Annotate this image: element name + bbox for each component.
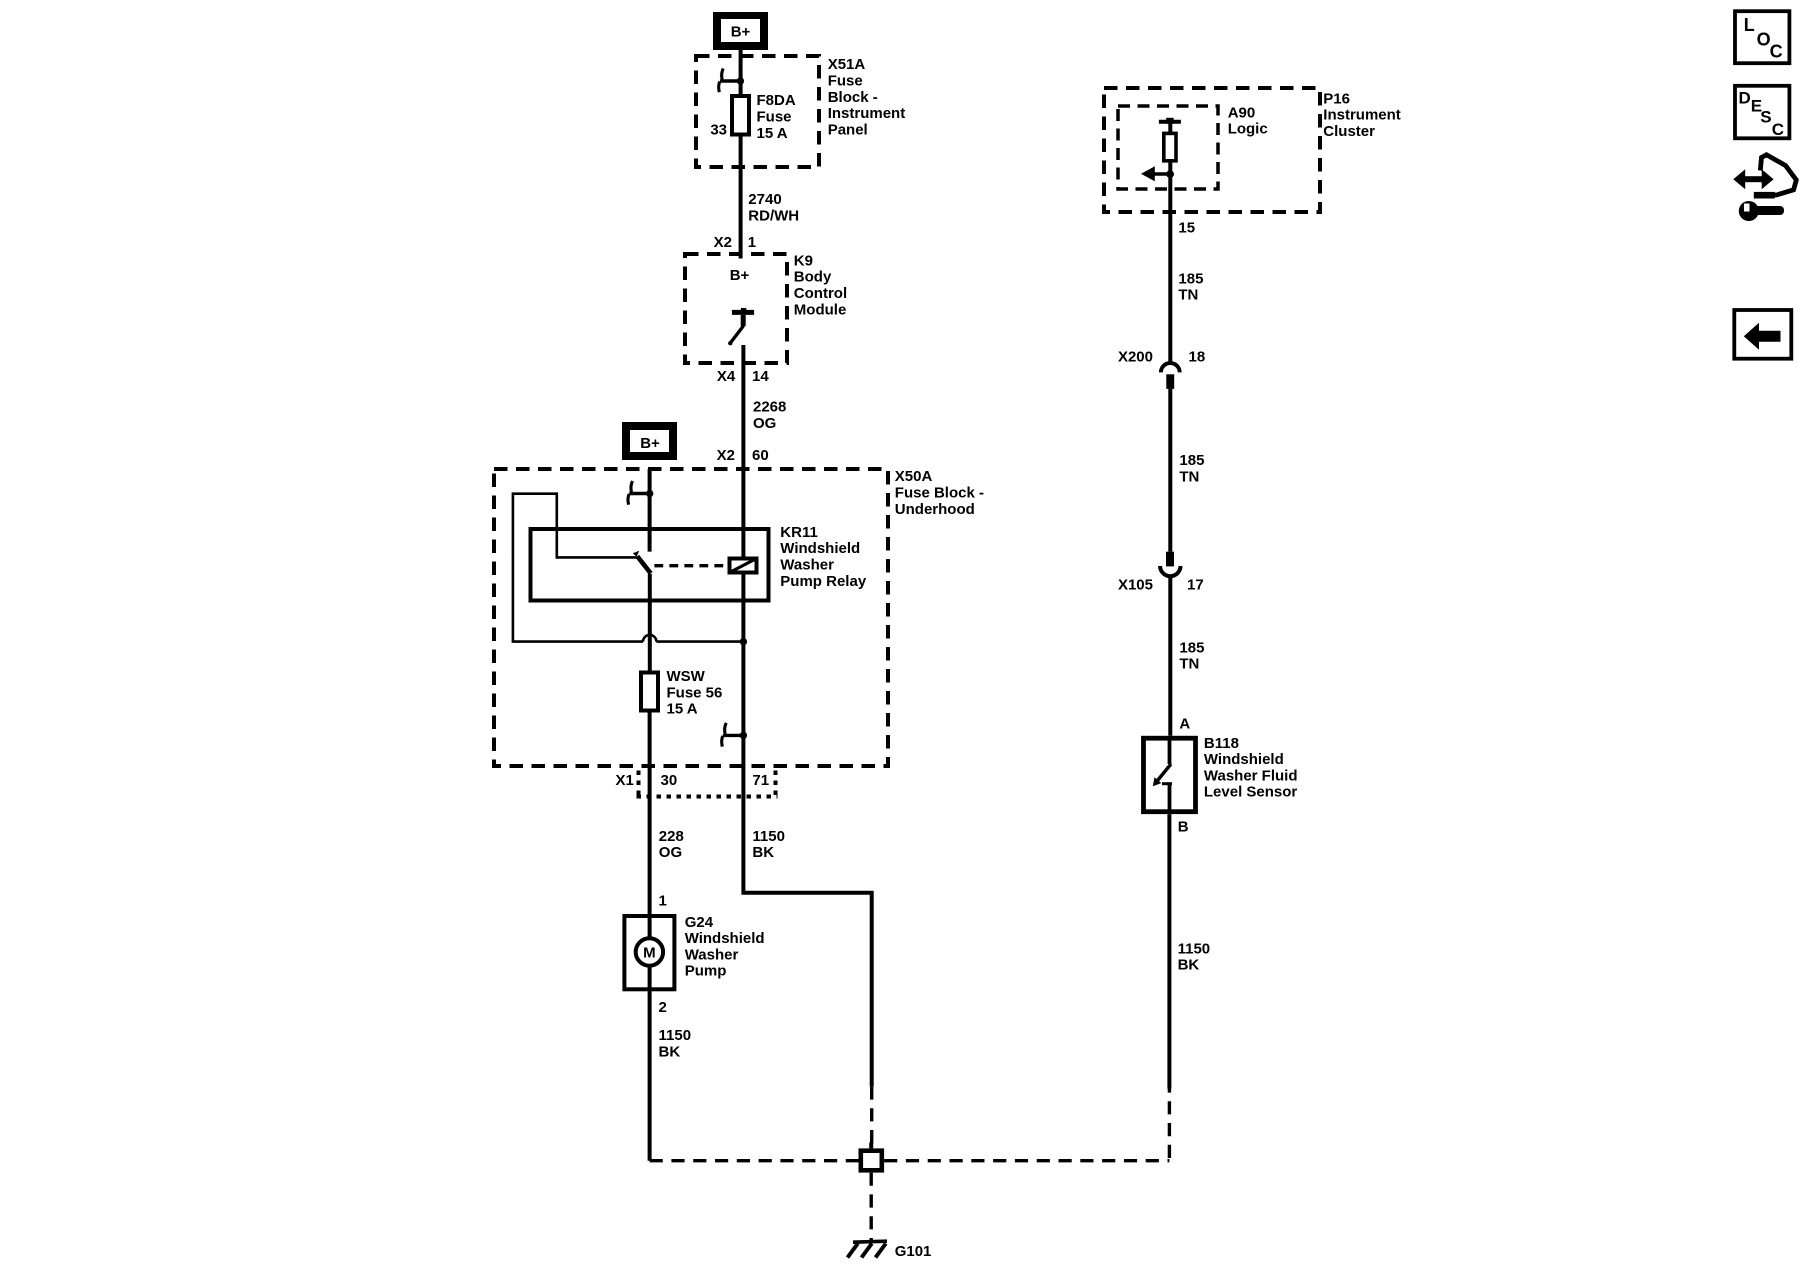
svg-text:228: 228 <box>659 828 684 845</box>
svg-text:Pump Relay: Pump Relay <box>780 573 867 590</box>
svg-text:D: D <box>1739 88 1751 107</box>
svg-text:TN: TN <box>1179 656 1199 673</box>
svg-text:KR11: KR11 <box>780 524 818 541</box>
svg-text:Pump: Pump <box>685 963 727 980</box>
svg-text:G24: G24 <box>685 914 714 931</box>
svg-text:1150: 1150 <box>1178 940 1211 957</box>
svg-text:Cluster: Cluster <box>1323 123 1375 140</box>
svg-text:14: 14 <box>752 368 769 385</box>
svg-text:Fuse Block -: Fuse Block - <box>895 485 984 502</box>
svg-text:X1: X1 <box>616 772 634 789</box>
svg-text:1150: 1150 <box>752 828 785 845</box>
svg-text:TN: TN <box>1179 468 1199 485</box>
svg-text:Fuse: Fuse <box>757 109 792 126</box>
svg-text:X105: X105 <box>1118 577 1153 594</box>
svg-text:O: O <box>1757 29 1771 49</box>
svg-text:2740: 2740 <box>748 191 781 208</box>
svg-text:Washer Fluid: Washer Fluid <box>1204 767 1298 784</box>
svg-text:Level Sensor: Level Sensor <box>1204 784 1298 801</box>
svg-text:Fuse: Fuse <box>828 72 863 89</box>
svg-text:Instrument: Instrument <box>1323 107 1401 124</box>
svg-text:X4: X4 <box>717 368 736 385</box>
svg-text:18: 18 <box>1189 348 1206 365</box>
svg-text:Logic: Logic <box>1228 121 1268 138</box>
svg-text:C: C <box>1770 42 1783 62</box>
svg-text:A: A <box>1179 716 1190 733</box>
svg-text:WSW: WSW <box>667 668 706 685</box>
svg-text:185: 185 <box>1178 270 1203 287</box>
svg-text:1150: 1150 <box>659 1027 692 1044</box>
svg-text:OG: OG <box>753 415 776 432</box>
svg-text:17: 17 <box>1187 577 1204 594</box>
svg-text:OG: OG <box>659 844 682 861</box>
svg-text:X200: X200 <box>1118 348 1153 365</box>
svg-text:B+: B+ <box>640 435 660 452</box>
svg-text:X2: X2 <box>714 234 732 251</box>
svg-text:K9: K9 <box>794 252 813 269</box>
svg-text:Body: Body <box>794 269 832 286</box>
svg-text:X50A: X50A <box>895 468 933 485</box>
svg-text:15 A: 15 A <box>757 125 788 142</box>
svg-text:BK: BK <box>659 1043 681 1060</box>
svg-text:15: 15 <box>1178 220 1195 237</box>
svg-text:S: S <box>1760 107 1771 126</box>
svg-text:15 A: 15 A <box>667 701 698 718</box>
svg-text:2268: 2268 <box>753 399 786 416</box>
svg-text:Washer: Washer <box>685 946 739 963</box>
svg-text:Underhood: Underhood <box>895 501 975 518</box>
svg-text:1: 1 <box>748 234 756 251</box>
svg-text:B118: B118 <box>1204 735 1239 752</box>
svg-text:Instrument: Instrument <box>828 105 906 122</box>
svg-text:Control: Control <box>794 285 847 302</box>
svg-text:Panel: Panel <box>828 122 868 139</box>
svg-text:60: 60 <box>752 447 769 464</box>
svg-text:B+: B+ <box>730 267 750 284</box>
svg-text:Windshield: Windshield <box>685 930 765 947</box>
svg-text:X51A: X51A <box>828 56 866 73</box>
svg-text:71: 71 <box>752 772 769 789</box>
svg-text:C: C <box>1772 120 1784 139</box>
svg-text:Module: Module <box>794 301 847 318</box>
svg-text:L: L <box>1744 15 1755 35</box>
svg-text:Fuse 56: Fuse 56 <box>667 684 723 701</box>
svg-text:TN: TN <box>1178 287 1198 304</box>
svg-text:BK: BK <box>1178 957 1200 974</box>
svg-text:P16: P16 <box>1323 90 1350 107</box>
svg-text:RD/WH: RD/WH <box>748 207 799 224</box>
svg-text:33: 33 <box>710 121 727 138</box>
svg-text:Windshield: Windshield <box>1204 751 1284 768</box>
svg-text:A90: A90 <box>1228 104 1256 121</box>
svg-text:M: M <box>643 944 656 961</box>
svg-text:30: 30 <box>661 772 678 789</box>
svg-text:BK: BK <box>752 844 774 861</box>
svg-text:Windshield: Windshield <box>780 540 860 557</box>
svg-text:G101: G101 <box>895 1243 932 1260</box>
svg-text:Block -: Block - <box>828 89 878 106</box>
svg-text:Washer: Washer <box>780 557 834 574</box>
svg-text:X2: X2 <box>717 447 735 464</box>
svg-text:185: 185 <box>1179 639 1204 656</box>
svg-text:B: B <box>1178 819 1189 836</box>
svg-text:F8DA: F8DA <box>757 92 796 109</box>
svg-text:2: 2 <box>659 999 667 1016</box>
svg-text:B+: B+ <box>731 24 751 41</box>
svg-text:185: 185 <box>1179 452 1204 469</box>
svg-text:1: 1 <box>659 893 667 910</box>
